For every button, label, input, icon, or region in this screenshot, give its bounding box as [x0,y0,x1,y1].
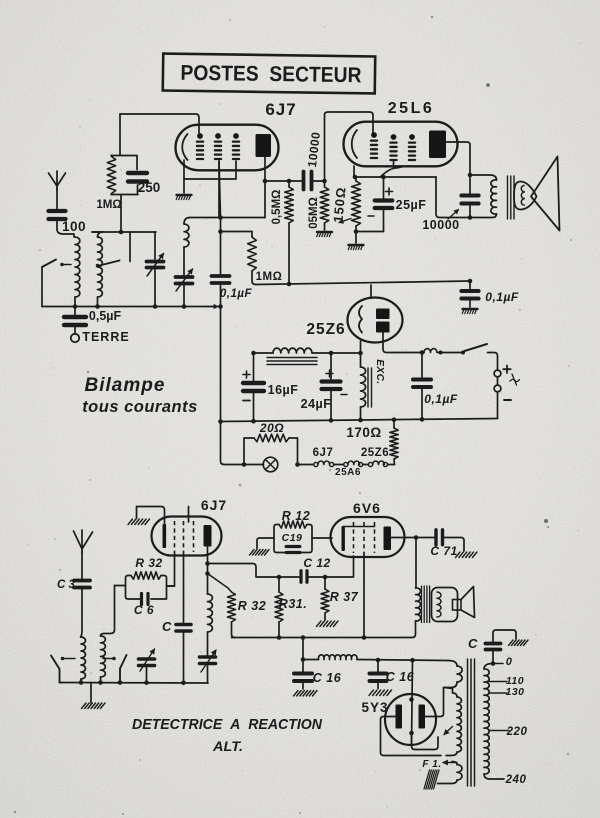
6J7 grid g2 [215,133,221,139]
svg-text:C: C [468,636,478,651]
svg-text:0: 0 [506,656,513,668]
tube 6V6 envelope [331,517,405,557]
heater terminal [330,462,334,466]
wire up-and-over to 25L6 grid [325,112,374,181]
heater terminal [344,462,348,466]
svg-text:170Ω: 170Ω [346,425,381,440]
svg-text:C 12: C 12 [303,556,330,570]
heater terminal [368,462,372,466]
screen feed wire [436,177,470,218]
25L6 plate wire [446,142,470,175]
svg-text:150Ω: 150Ω [330,186,348,223]
svg-text:6J7: 6J7 [201,497,227,513]
switch S2 stub [129,232,131,262]
ground (150-ohm) [349,244,364,246]
OT secondary frame [432,588,458,622]
wire L3 to plate link [190,217,265,219]
svg-text:25L6: 25L6 [388,100,434,117]
switch feed wire y=352 [394,352,424,354]
switch contact 1 [61,657,65,661]
output coupling wire [208,564,300,578]
reaction coil [207,574,209,595]
RF coil L3 [184,218,190,225]
wire grid riser [115,585,126,587]
heater wire [298,464,314,466]
5Y3 feed wire [412,660,413,745]
label plus 25uF [386,188,393,195]
wire C3 to L1 [81,590,83,638]
6V6 cathode wire [363,553,365,638]
wire C71 to ground [443,538,465,552]
cathode wire y=177 [354,176,436,178]
svg-text:0,1µF: 0,1µF [424,392,458,406]
capacitor C12 [299,571,302,583]
switch contact a [439,351,443,355]
capacitor C16 b [377,660,379,672]
heater wire [363,464,369,466]
junction plate/C71 [414,535,419,540]
switch S1 contact [60,263,64,267]
svg-text:16µF: 16µF [268,383,299,397]
transformer winding B [445,688,458,698]
svg-text:ALT.: ALT. [212,738,243,754]
junction L1b [79,680,84,685]
tap 220 [489,730,509,732]
earth terminal TERRE [74,327,76,333]
25Z6 feed stub [370,285,372,298]
wire top y=114 to 6J7 grid [120,114,199,133]
ground (0,1uF output) [463,308,478,310]
transformer winding A [448,661,457,667]
F1 arrow [443,762,457,764]
antenna (bottom) [74,530,93,553]
label plus terminal [503,366,510,374]
ground bus (antenna) y=306 [42,306,213,308]
heater bus left [221,422,264,465]
mains hatch [424,770,430,789]
capacitor C6 [140,594,143,605]
5Y3 plate left [396,705,403,729]
25Z6 plate 1 [376,309,390,320]
ground (R12 combo) [250,550,255,556]
svg-text:220: 220 [506,726,528,738]
svg-text:C: C [162,619,172,634]
5Y3 node top [409,697,414,702]
ground (R37) [317,621,322,627]
tube 5Y3 envelope [385,694,436,745]
tap 0 wire [493,663,503,665]
wire to switch [441,352,464,354]
junction plate/output [205,561,210,566]
svg-text:tous courants: tous courants [82,398,198,416]
speaker cone (bottom) [461,587,475,618]
tap 110 [489,681,507,683]
ground (mains C) [509,640,514,646]
grid combo R12/C19 [274,525,312,553]
25Z6 cathode wire [360,341,362,353]
capacitor 0,1uF (grid) [212,274,230,278]
switch blade [465,344,488,351]
junction C16a bus [301,635,306,640]
OT core (bottom) [421,586,423,623]
6J7 suppressor tie [184,161,236,179]
output terminal minus [494,385,501,392]
transformer winding C [452,762,457,765]
bus end arrow [207,306,218,308]
junction 0,1uF switch row [420,350,425,355]
choke core lines [267,357,317,359]
junction 170 bus [392,417,397,422]
label minus 24uF [341,394,347,396]
6J7 grid g3 [233,133,239,139]
svg-text:25Z6: 25Z6 [306,321,345,338]
svg-text:F 1.: F 1. [422,759,441,770]
wire switch to +terminal [488,353,498,371]
junction grid-leak [119,230,124,235]
resistor 150-ohm [352,181,361,226]
svg-text:5Y3: 5Y3 [361,700,388,715]
6J7b grid dash 3 [193,521,195,552]
label minus terminal [504,399,511,401]
25L6 beam tie squiggle [380,166,413,177]
lamp box [244,438,298,465]
capacitor 24uF [330,353,332,380]
svg-text:0,5MΩ: 0,5MΩ [271,190,283,225]
svg-text:C19: C19 [282,532,303,544]
title box POSTES SECTEUR [163,54,375,94]
switch arm 2 (bottom) [120,655,127,683]
antenna [49,171,66,190]
svg-text:250: 250 [138,180,161,195]
6V6 grid dash 1 [353,522,355,553]
antenna coil L1 [75,237,80,297]
wire cap100 to coil L1 [57,221,74,237]
5Y3 left plate wire [381,717,442,756]
junction tone cap bottom [468,215,473,220]
junction 0,5M top [287,179,292,184]
25L6 grid g1 [371,132,377,138]
wire combo to grid wire [120,195,122,232]
svg-text:25µF: 25µF [396,198,427,212]
capacitor 25uF [383,177,385,198]
junction 24uF top [329,351,334,356]
OT secondary loops [437,592,441,617]
junction 150 bottom [354,229,359,234]
mains winding [484,664,493,670]
grid-leak combo box wires [111,114,138,195]
6J7b top wires [137,507,189,525]
variable capacitor (ant, bottom) [139,657,155,661]
dial lamp [263,457,278,472]
resistor 0,5M-ohm [288,181,290,187]
wire C12 to 6V6 grid [307,556,354,577]
junction cv1b [144,680,149,685]
6J7b grid dash 2 [183,521,185,552]
B- bus 25Z6 row [221,419,498,422]
grid combo R32/C6 box [126,576,167,600]
adjust arrow 150-ohm [339,219,351,223]
junction 0,1uF-sw bus [420,417,425,422]
filter choke [254,352,274,354]
svg-text:100: 100 [62,219,86,234]
junction 0,5M bottom [287,282,292,287]
svg-text:R 32: R 32 [238,599,266,613]
junction choke/cathode [358,351,363,356]
resistor R32 (grid leak) [131,572,161,580]
fuse bumps [424,349,441,353]
junction R31 top [277,575,282,580]
wire plate to coupling cap [265,180,302,182]
svg-text:0,1µF: 0,1µF [485,290,519,304]
capacitor 0,5uF (earth) [74,307,76,316]
resistor 170-ohm [393,419,395,429]
heater terminal [359,462,363,466]
switch S2 contact [96,264,100,268]
capacitor C19 [286,545,300,548]
junction C16b [376,658,381,663]
6J7 grid g1 [197,133,203,139]
svg-text:C 6: C 6 [134,603,154,617]
6V6 plate [384,527,392,551]
svg-text:EXC.: EXC. [374,359,385,384]
wire antenna to C3 [81,551,83,579]
25Z6 plate 2 [376,322,390,333]
EXC core lines [367,368,369,407]
tube 6J7 envelope [176,125,279,171]
wire L2 top [92,232,103,237]
svg-text:10000: 10000 [422,218,459,232]
HV tap arrow [444,727,453,735]
6J7b plate [204,525,212,547]
6J7 cathode to ground [183,160,185,193]
ground (C71) [456,552,461,558]
junction antenna bus [218,304,223,309]
capacitor C71 [434,530,437,545]
wire C16b ground [377,683,379,689]
svg-text:6J7: 6J7 [313,447,334,459]
svg-text:20Ω: 20Ω [259,421,284,435]
junction R31 bottom [277,635,282,640]
junction lamp box left [242,462,247,467]
switch contact 2 [112,657,116,661]
6V6 grid dash 3 [374,522,376,553]
junction 6V6 cathode [362,635,367,640]
frame coil L1 (bottom) [81,637,85,679]
svg-text:C 71: C 71 [430,544,457,558]
5Y3 right plate wire [425,688,444,717]
ground (6J7b top) [128,519,133,525]
resistor R37 [324,577,326,589]
25L6 grid g3 [409,134,415,140]
label plus 16uF [243,371,250,378]
heater wire [334,464,344,466]
coupling coil L2 [98,237,103,297]
svg-text:C 16: C 16 [313,671,342,685]
junction EXC bottom [358,418,363,423]
svg-text:C 16: C 16 [386,670,415,684]
junction sw2 [118,680,123,685]
25L6 plate [429,131,446,159]
label plus 24uF [326,370,333,377]
junction plate/R32b [205,571,210,576]
capacitor 100 (antenna series) [49,209,66,213]
6J7 g2 line down [218,161,220,218]
6V6 internal tie [343,526,375,528]
switch arm 1 (bottom) [51,656,60,683]
tube 25L6 envelope [344,122,458,167]
junction g2/1M wire [218,229,223,234]
tube 25Z6 envelope [348,298,403,343]
svg-text:05MΩ: 05MΩ [308,197,320,229]
svg-text:240: 240 [505,774,527,786]
heater terminal [383,462,387,466]
switch S1 wire [41,267,43,307]
6J7b plate wire down [207,546,209,574]
ground (C16a) [294,691,299,697]
resistor 05M-ohm [324,181,326,187]
wire antenna to cap 100 [56,188,58,209]
6J7 plate [256,134,272,157]
output transformer primary [470,175,497,180]
svg-text:R 37: R 37 [330,590,359,604]
5Y3 filament tap wire [412,733,439,750]
B+ bus (bottom) [232,637,413,639]
output transformer core [507,176,509,219]
resistor R12 [279,521,307,528]
junction 25uF [381,175,386,180]
capacitor 0,1uF (switch) [421,353,423,378]
junction L1-bus [73,304,78,309]
junction Ccap [181,681,186,686]
6J7 plate line down [264,157,266,218]
wire g2 to 1M [221,231,253,233]
capacitor C (series) [176,623,191,627]
25L6 grid g2 [391,134,397,140]
25L6 cathode [352,130,357,158]
svg-text:R31.: R31. [279,597,307,611]
vertical bus x=220 [219,161,221,274]
svg-text:DETECTRICE A REACTION: DETECTRICE A REACTION [132,716,323,733]
svg-text:1MΩ: 1MΩ [96,199,121,211]
resistor R32 (bottom) [228,592,236,622]
wire combo to grid [167,585,175,587]
junction L2-bus [95,304,100,309]
svg-text:24µF: 24µF [301,397,332,411]
6J7b grid wire down [167,552,175,586]
svg-text:25A6: 25A6 [335,467,361,478]
heater 6J7 bumps [318,461,330,464]
svg-text:1MΩ: 1MΩ [256,271,283,283]
25Z6 cathode wave [359,306,362,333]
heater terminal [314,462,318,466]
svg-text:POSTES SECTEUR: POSTES SECTEUR [180,61,362,88]
ground (bottom left) [82,703,87,709]
tap 130 [489,692,507,694]
OT primary return [412,621,416,638]
junction 24uF bottom [329,418,334,423]
6J7b cathode bar [163,524,167,548]
variable capacitor CV2 [183,247,185,276]
6J7 cathode [182,134,187,160]
field coil EXC [360,353,362,367]
transformer core (PS) [467,659,469,786]
variable capacitor (reaction) [207,632,209,655]
5Y3 node bottom [409,731,414,736]
junction plate/primary [468,173,473,178]
junction plate/coupling [263,179,268,184]
6J7b cathode wire down [183,552,185,623]
wire plate to OT primary [415,538,417,589]
svg-text:0,5µF: 0,5µF [89,309,122,323]
heater wire to 170 [388,464,395,466]
switch S1 arm [42,260,56,268]
capacitor C (mains) [492,652,494,664]
resistor 20-ohm [254,434,289,442]
switch contact b [461,351,465,355]
C16a riser [302,638,304,672]
grid wire y=232 [92,231,156,233]
svg-text:130: 130 [505,686,524,698]
25Z6 plate wire [383,333,394,353]
resistor R31 [278,577,280,592]
capacitor 10000 (tone) [469,175,471,194]
junction 0 tap [491,661,496,666]
wire combo left to ground [257,538,274,549]
resistor 1M-ohm grid leak [107,157,115,194]
junction lamp box right [295,462,300,467]
vertical bus x=220 lower [220,285,222,422]
ground (05M) [317,231,332,233]
wire combo to 6V6 [312,537,332,539]
svg-text:6V6: 6V6 [353,500,381,516]
label minus 25uF [368,215,374,217]
svg-text:Bilampe: Bilampe [85,375,166,396]
wire C16a to ground [302,683,304,689]
6V6 plate wire [391,537,434,539]
choke (bottom) [303,659,319,661]
speaker cone [531,157,560,231]
wire to R32b [208,574,232,593]
output terminal plus [494,370,501,377]
variable capacitor CV1 [154,232,156,259]
resistor 1M-ohm (g2 feed) [251,232,253,238]
junction L3/g2 wire [218,215,223,220]
6J7b grid dash 1 [174,521,176,552]
heater 25A6 bumps [348,461,360,464]
OT primary (bottom) [416,588,421,621]
B+ bus y=283 [256,281,470,285]
6V6 cathode bar [342,526,345,551]
capacitor 16uF [253,353,255,381]
capacitor 0,1uF (output) [469,281,471,289]
25L6 cathode tail [353,166,355,177]
switch S2 arm [100,261,120,266]
ground (6J7 cathode) [177,194,192,196]
wire between terminals [497,377,499,385]
6V6 grid dash 2 [363,522,365,553]
capacitor C3 [74,579,90,583]
svg-text:TERRE: TERRE [82,330,129,344]
svg-text:25Z6: 25Z6 [361,447,389,459]
junction CV2-bus [182,304,187,309]
capacitor 250 (parallel) [128,171,147,175]
svg-text:R 32: R 32 [135,556,162,570]
junction 05M [322,179,327,184]
svg-text:R 12: R 12 [282,509,310,523]
wire L1 bottom [74,297,76,307]
speaker box (bottom) [453,600,462,611]
tube 6J7 envelope (bottom) [152,517,222,556]
